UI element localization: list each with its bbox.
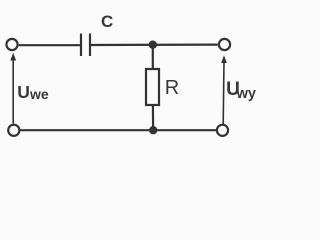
svg-text:C: C	[101, 12, 113, 31]
svg-text:R: R	[165, 77, 179, 99]
svg-text:U: U	[17, 82, 30, 102]
svg-text:wy: wy	[236, 86, 256, 102]
svg-text:we: we	[29, 86, 49, 102]
